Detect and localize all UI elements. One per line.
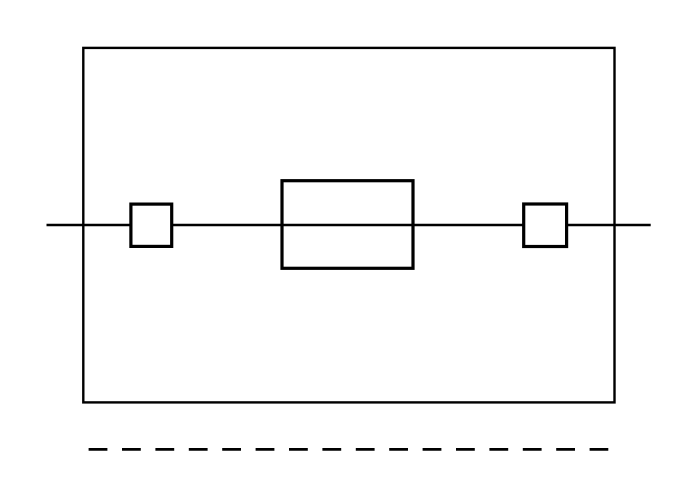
- dashed separation line: [89, 448, 609, 451]
- terminal block outline: [83, 48, 614, 403]
- wire: [47, 224, 651, 227]
- clamp contact left: [131, 204, 172, 246]
- fuse F1: [282, 181, 413, 269]
- clamp contact right: [524, 204, 567, 247]
